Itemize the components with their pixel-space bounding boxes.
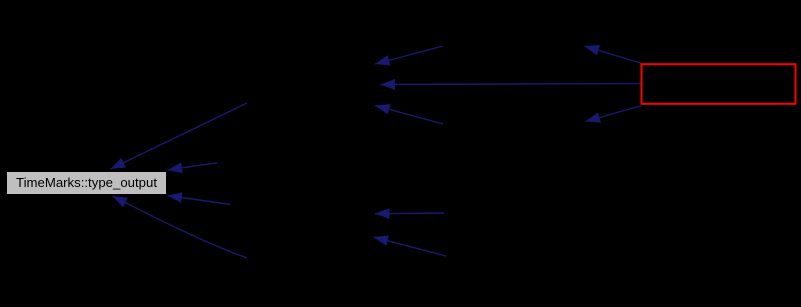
wire: long horizontal edge from red box to box A xyxy=(381,84,642,85)
wire: edge from caller box C to TimeMarks::type_output xyxy=(168,163,218,170)
node current function (red border) xyxy=(642,64,796,104)
wire: edge into box B lower xyxy=(374,237,447,256)
svg-text:TimeMarks::type_output: TimeMarks::type_output xyxy=(16,175,157,190)
wire: edge from caller box B to TimeMarks::type_output (curved) xyxy=(113,196,248,258)
wire: edge into box A upper xyxy=(375,46,443,64)
wire: horizontal edge into box B upper xyxy=(375,212,444,215)
wire: edge from caller box A to TimeMarks::type_output (curved) xyxy=(111,103,248,169)
node TimeMarks::type_output (gray highlighted node) xyxy=(7,172,167,195)
wire: edge into box A lower xyxy=(375,106,443,125)
wire: edge from red box to upper middle box xyxy=(585,46,643,64)
wire: edge from red box to lower middle box xyxy=(586,106,643,122)
wire: edge from caller box D to TimeMarks::type_output xyxy=(168,196,231,205)
